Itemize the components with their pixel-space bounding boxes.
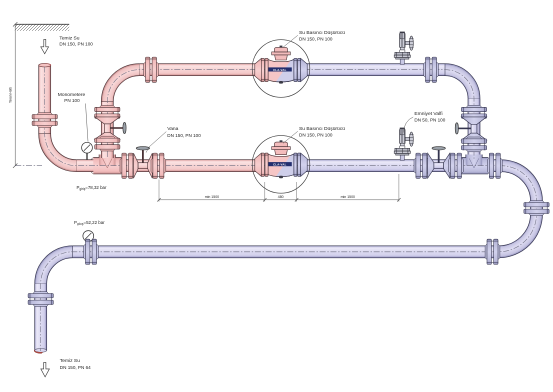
svg-text:480: 480 xyxy=(278,195,284,199)
detail circle around PRV 1 xyxy=(252,40,310,98)
flange pair on pink inlet vertical xyxy=(32,113,57,128)
flange pair right vertical xyxy=(524,201,549,216)
centerline line 1 run xyxy=(107,70,474,160)
blue right vertical pipe xyxy=(531,201,543,214)
flange pair riser upper xyxy=(95,105,120,120)
blue bottom pipe xyxy=(73,246,499,258)
safety relief valve on line 1 xyxy=(394,32,413,65)
svg-text:Monometere: Monometere xyxy=(58,92,86,98)
svg-text:min 1500: min 1500 xyxy=(205,195,219,199)
pink pipe line 1 to PRV circle xyxy=(139,64,255,76)
manometer on line 2 (Monometere) xyxy=(82,142,93,160)
blue elbow line 2 right (down) xyxy=(501,160,543,202)
pink tee at riser junction xyxy=(91,155,124,174)
pink pipe line 2 to PRV circle xyxy=(121,160,255,172)
svg-text:Tavan Hattı: Tavan Hattı xyxy=(9,87,13,103)
flange pair line 2 right b xyxy=(449,153,464,178)
flange pair line 1 left xyxy=(144,57,159,82)
flange pair line 1 right xyxy=(424,57,439,82)
arrow outlet flow (down) xyxy=(41,362,50,377)
gate valve Vana on line 2 xyxy=(134,147,153,179)
svg-text:CLA-VAL: CLA-VAL xyxy=(273,163,287,167)
svg-text:DN 50, PN 100: DN 50, PN 100 xyxy=(414,118,445,123)
pink riser pipe xyxy=(101,102,113,159)
centerline line 2 and loop run xyxy=(41,67,537,352)
flange pair riser lower xyxy=(95,136,120,151)
arrow inlet flow (down) xyxy=(41,39,49,53)
blue elbow bottom left xyxy=(35,246,73,284)
pink pipe line 2 left segment xyxy=(77,160,95,172)
flange pair line 2 after valve xyxy=(151,153,166,178)
svg-text:DN 150, PN 100: DN 150, PN 100 xyxy=(299,37,333,42)
leader manometer xyxy=(86,104,89,142)
svg-text:Temiz Su: Temiz Su xyxy=(60,358,80,364)
flange pair line 2 right a xyxy=(414,153,429,178)
detail circle around PRV 2 xyxy=(252,136,310,194)
flange pair on drop upper xyxy=(461,105,486,120)
blue tee at drop junction xyxy=(457,155,490,174)
svg-text:DN 150, PN 100: DN 150, PN 100 xyxy=(59,41,93,46)
small gate valve line 2 right xyxy=(428,147,450,179)
pink inlet pipe open top cap xyxy=(39,63,51,67)
drop gate valve (handle left) xyxy=(455,117,486,140)
pressure reducing valve (Su Basinci Dusurucu) 1 xyxy=(255,46,307,84)
flange pair bottom right xyxy=(485,239,500,264)
leader PRV 2 xyxy=(283,131,298,143)
blue pipe line 1 after PRV xyxy=(306,64,445,76)
flange pair on drop lower xyxy=(461,137,486,152)
svg-text:Su Basıncı Düşürücü: Su Basıncı Düşürücü xyxy=(299,126,345,132)
pink elbow top (riser to line 1) xyxy=(101,64,139,102)
blue pipe line 2 after PRV xyxy=(306,160,501,172)
ceiling line with hatch xyxy=(15,24,69,31)
svg-text:CLA-VAL: CLA-VAL xyxy=(273,68,287,72)
leader emniyet valfi xyxy=(403,117,413,134)
blue elbow line 1 right (down) xyxy=(445,64,480,99)
blue outlet pipe open end xyxy=(34,349,47,354)
pressure reducing valve (Su Basinci Dusurucu) 2 xyxy=(255,140,307,178)
riser gate valve xyxy=(95,117,126,139)
dimension line under line 2 xyxy=(159,199,399,201)
flange pair line 2 before valve xyxy=(120,153,135,178)
svg-text:PN 100: PN 100 xyxy=(64,98,80,103)
svg-text:Su Basıncı Düşürücü: Su Basıncı Düşürücü xyxy=(299,30,345,36)
blue drop pipe to line 2 xyxy=(468,99,480,158)
svg-text:DN 150, PN 100: DN 150, PN 100 xyxy=(299,133,333,138)
svg-text:DN 150, PN 100: DN 150, PN 100 xyxy=(167,133,201,138)
svg-text:Vana: Vana xyxy=(167,126,178,132)
flange pair before right elbow xyxy=(487,153,502,178)
vertical dimension line ceiling-to-pipe xyxy=(13,22,17,168)
svg-text:DN 150, PN 64: DN 150, PN 64 xyxy=(60,365,91,370)
blue elbow bottom right xyxy=(499,214,543,258)
pink elbow lower-left (inlet to line 2) xyxy=(39,134,77,172)
leader vana xyxy=(146,132,166,153)
svg-text:min 1500: min 1500 xyxy=(341,195,355,199)
flange pair bottom left xyxy=(84,239,99,264)
pink inlet vertical pipe xyxy=(39,65,51,134)
flange pair outlet vertical xyxy=(28,292,53,307)
svg-text:Emniyet Valfi: Emniyet Valfi xyxy=(414,111,442,117)
blue outlet vertical pipe xyxy=(35,284,47,351)
safety relief valve on line 2 (Emniyet Valfi) xyxy=(394,128,413,161)
svg-text:Temiz Su: Temiz Su xyxy=(59,35,79,41)
centerline stub to dimension line xyxy=(15,165,42,167)
leader PRV 1 xyxy=(283,35,298,47)
manometer on bottom pipe xyxy=(83,231,94,247)
